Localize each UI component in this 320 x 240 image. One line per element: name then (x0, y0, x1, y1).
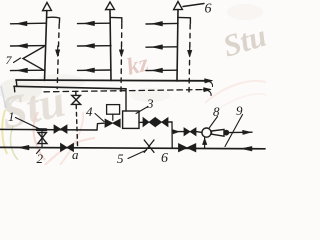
diffuser cone after pump (212, 129, 225, 136)
branch arrow 3c (wire) (146, 69, 177, 71)
svg-text:a: a (72, 147, 79, 162)
branch arrow 2b (wire) (78, 45, 112, 47)
double valve right (155, 118, 161, 127)
double valve left (143, 118, 149, 127)
leader from 1 (wire) (16, 118, 41, 130)
branch arrow 1a (wire) (11, 22, 47, 25)
down arrow on return drop 3 (189, 47, 191, 54)
supply main left hook (15, 80, 18, 86)
riser 2 (110, 10, 111, 81)
leader from 8 (wire) (210, 117, 218, 128)
svg-text:7: 7 (6, 53, 13, 67)
heat box 3 (123, 111, 139, 128)
bypass pipe (wire) (41, 130, 43, 148)
leader from 9 (wire) (225, 115, 243, 147)
ball at cone end node (224, 130, 229, 135)
wire valve to pump (196, 131, 202, 134)
dashed air line (wire) (44, 90, 203, 92)
return main drop to unit (wire) (125, 89, 127, 111)
valve on bottom pipe right (179, 144, 188, 152)
background paper (0, 0, 266, 165)
leader to label 6 (top) (183, 4, 204, 7)
control valve 4 stem (112, 114, 114, 120)
svg-text:5: 5 (117, 151, 124, 165)
riser 3 (177, 10, 178, 81)
watermark pink arc top-right (205, 81, 266, 103)
up arrow on suction branch (202, 138, 206, 144)
riser 3 top hook (178, 17, 191, 23)
dashed return drop 2 (120, 24, 123, 92)
control valve 4 body (105, 119, 113, 127)
svg-text:1: 1 (8, 109, 15, 124)
riser 1 air vent triangle (43, 3, 52, 11)
vent valve on drop (72, 95, 81, 104)
zigzag loop 7 on riser 1 (23, 47, 44, 71)
riser 2 air vent triangle (106, 2, 115, 10)
junction blob node (37, 128, 46, 131)
return main left hook (13, 86, 16, 92)
outlet wire with right arrow (229, 131, 252, 133)
control valve 4 actuator box (107, 105, 120, 115)
supply main right end arrow (205, 80, 212, 82)
svg-text:3: 3 (146, 96, 154, 111)
leader from 3 (wire) (136, 107, 148, 114)
scan smudges (0, 78, 42, 102)
wire box3 to valves (139, 121, 143, 123)
air line right end arrow (203, 88, 210, 90)
dashed return drop 1 (57, 24, 59, 89)
svg-text:8: 8 (213, 104, 220, 119)
return main (wire) (14, 86, 126, 89)
watermark gray arc (10, 95, 24, 112)
pump circle 8 (202, 128, 211, 137)
bypass hourglass valve (38, 133, 47, 144)
svg-text:4: 4 (86, 104, 93, 119)
leader from 5 (wire) (128, 150, 147, 159)
down arrow on return drop 2 (120, 46, 122, 53)
dashed drop to a (wire) (76, 105, 77, 148)
valve on bottom pipe left (61, 143, 68, 151)
branch arrow 2c (wire) (78, 69, 112, 71)
watermark green curve (11, 126, 18, 160)
branch arrow 1c (wire) (11, 69, 46, 71)
pump suction branch (wire) (204, 137, 206, 147)
watermark yellow curve (2, 110, 7, 154)
wire valves to drop junction (168, 121, 172, 123)
leader from 4 (wire) (95, 114, 104, 122)
bottom return pipe (wire) (0, 147, 265, 148)
dashed return drop 3 (189, 25, 190, 94)
branch arrow 1b (wire) (11, 45, 46, 47)
inlet jog up (wire) (97, 123, 104, 130)
branch arrow 3a (wire) (146, 22, 178, 25)
left arrow right side of bottom pipe (242, 146, 253, 151)
branch arrow 3b (wire) (146, 46, 177, 48)
watermark Stu bottom-left (0, 75, 70, 139)
inlet line (wire) (0, 128, 97, 131)
branch arrow 2a (wire) (78, 22, 111, 24)
valve on inlet line (54, 125, 61, 133)
left arrow on bottom pipe (19, 145, 30, 150)
svg-text:6: 6 (161, 151, 168, 165)
watermark pink arcs bottom-left (34, 112, 45, 160)
watermark blue curve (1, 86, 6, 108)
riser 3 air vent triangle (174, 2, 183, 10)
supply main (wire) (16, 79, 205, 82)
riser 1 (supply stand-pipe) (45, 11, 47, 81)
leader from 2 (wire) (37, 150, 41, 154)
drop from air line at a (wire) (75, 92, 77, 96)
drop junction vertical (wire) (171, 122, 173, 148)
closed valve 5 (X) (144, 140, 154, 152)
valve before pump (184, 128, 190, 136)
flow arrow right on pump line (172, 131, 183, 133)
svg-text:6: 6 (205, 2, 212, 17)
down arrow on return drop 1 (57, 46, 59, 53)
riser 2 top hook (110, 17, 122, 23)
riser 1 top hook to return drop (47, 17, 60, 23)
